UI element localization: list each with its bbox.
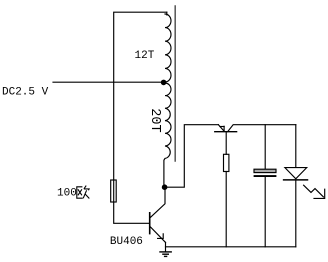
- svg-text:BU406: BU406: [110, 236, 143, 248]
- svg-text:100: 100: [57, 188, 77, 200]
- svg-text:20T: 20T: [147, 108, 162, 132]
- svg-text:12T: 12T: [135, 50, 155, 62]
- svg-text:DC2.5 V: DC2.5 V: [2, 87, 49, 99]
